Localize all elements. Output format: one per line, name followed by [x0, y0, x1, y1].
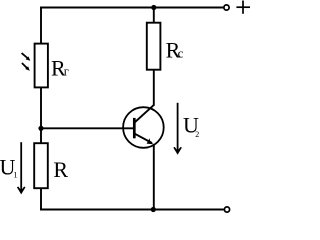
resistor R body: [34, 143, 48, 188]
terminal: bottom-right open circle: [224, 207, 229, 212]
terminal: top-right open circle: [224, 5, 229, 10]
svg-text:2: 2: [195, 130, 199, 139]
photoresistor light arrow 1: [22, 53, 31, 61]
wire: left vertical, top rail to photoresistor: [40, 7, 42, 44]
svg-text:R: R: [53, 157, 68, 182]
transistor base bar: [133, 118, 136, 138]
node: emitter / bottom rail junction dot: [151, 207, 156, 212]
transistor emitter lead with arrow: [134, 133, 154, 144]
wire: base wire from divider node to transistor: [41, 127, 134, 129]
svg-text:1: 1: [13, 169, 17, 179]
resistor RC body: [147, 23, 161, 70]
transistor VT1 body circle: [123, 107, 164, 148]
wire: top rail from left branch to + terminal: [40, 7, 224, 9]
wire: between photoresistor and resistor R: [40, 87, 42, 143]
wire: bottom rail to bottom terminal: [40, 209, 224, 211]
+ terminal polarity mark: [236, 1, 250, 14]
wire: resistor RC to collector: [153, 70, 155, 106]
voltage arrow U2: [173, 103, 182, 155]
svg-text:г: г: [64, 65, 69, 79]
voltage arrow U1: [17, 142, 26, 194]
transistor collector lead: [134, 105, 154, 123]
node: divider junction dot: [38, 126, 43, 131]
svg-text:c: c: [178, 46, 184, 61]
photoresistor light arrow 2: [22, 63, 30, 71]
wire: left vertical, resistor R to bottom rail: [40, 188, 42, 210]
wire: emitter down to bottom rail: [153, 145, 155, 211]
photoresistor Rг body: [35, 44, 48, 88]
node: top rail / collector junction dot: [151, 5, 156, 10]
wire: top rail down to resistor RC: [153, 8, 155, 24]
